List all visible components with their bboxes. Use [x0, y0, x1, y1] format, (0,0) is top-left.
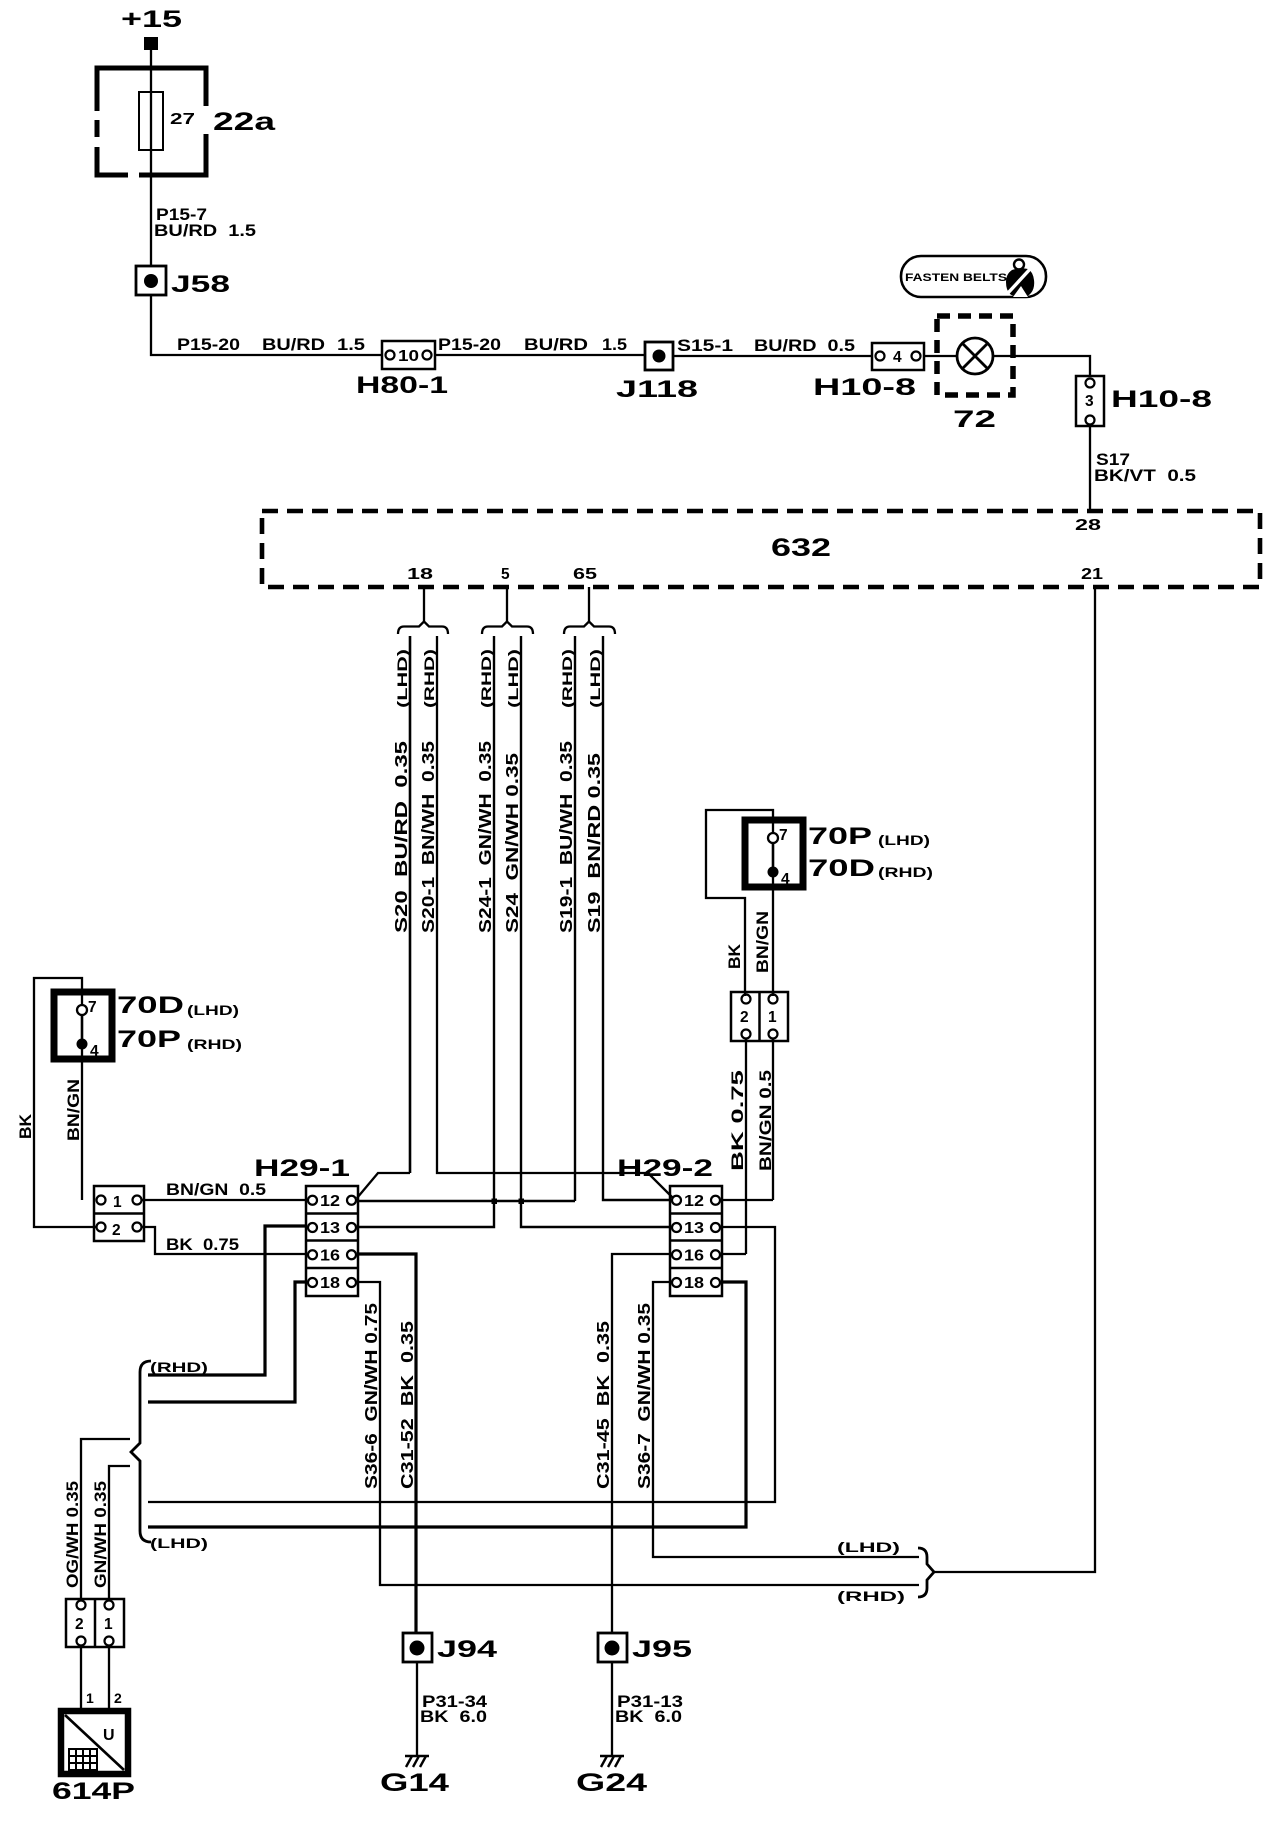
wire S20-1 BN/WH 0.35 (RHD)	[418, 636, 673, 1198]
svg-text:S19-1 BU/WH 0.35: S19-1 BU/WH 0.35	[556, 741, 576, 933]
svg-text:28: 28	[1075, 517, 1102, 534]
svg-text:2: 2	[740, 1009, 749, 1026]
switch 70P/70D right	[745, 820, 803, 888]
wire to 614P pin 2	[108, 1645, 110, 1710]
svg-text:18: 18	[407, 566, 434, 583]
svg-text:16: 16	[684, 1247, 704, 1264]
wire S36-6 GN/WH 0.75 to brace RHD	[358, 1282, 919, 1585]
svg-text:BK 6.0: BK 6.0	[615, 1708, 682, 1726]
svg-text:22a: 22a	[213, 108, 277, 136]
svg-text:+15: +15	[121, 6, 182, 33]
svg-text:1.5: 1.5	[337, 336, 365, 354]
svg-text:1: 1	[113, 1194, 122, 1211]
svg-text:70P: 70P	[808, 823, 872, 850]
svg-text:H80-1: H80-1	[356, 372, 448, 399]
svg-text:(LHD): (LHD)	[878, 832, 930, 848]
svg-text:BU/RD: BU/RD	[524, 336, 588, 354]
connector H29-1	[254, 1155, 358, 1296]
svg-text:70P: 70P	[117, 1026, 181, 1053]
wire H29-2 pin12 to BN/GN	[722, 1199, 773, 1201]
svg-text:S36-7 GN/WH 0.35: S36-7 GN/WH 0.35	[634, 1303, 654, 1489]
instrument 614P	[52, 1711, 135, 1805]
svg-text:J58: J58	[171, 271, 230, 298]
wire H29-2 pin13 to brace LHD	[148, 1227, 775, 1502]
svg-text:70D: 70D	[808, 855, 875, 882]
switch 70D/70P left	[54, 992, 112, 1060]
svg-text:S20-1 BN/WH 0.35: S20-1 BN/WH 0.35	[418, 741, 438, 933]
svg-text:J94: J94	[437, 1636, 498, 1663]
junction dot S24	[519, 1199, 525, 1205]
brace pin 18 pair	[398, 622, 448, 635]
wire H29-1 pin18 to brace RHD	[148, 1282, 307, 1402]
svg-text:BN/GN 0.5: BN/GN 0.5	[757, 1070, 775, 1171]
svg-text:614P: 614P	[52, 1778, 135, 1805]
wire 632 pin 5 stub	[506, 587, 508, 621]
wire S17 BK/VT 0.5 to 632 pin 28	[1090, 426, 1196, 511]
svg-text:(LHD): (LHD)	[587, 649, 603, 708]
svg-text:BK 0.75: BK 0.75	[166, 1236, 239, 1254]
svg-text:632: 632	[771, 534, 831, 562]
svg-text:5: 5	[501, 566, 510, 583]
junction J58	[136, 266, 230, 298]
svg-text:BK 6.0: BK 6.0	[420, 1708, 487, 1726]
wire BK 0.75 to H29-1 pin 16	[141, 1227, 307, 1254]
fuse box 22a	[94, 68, 209, 178]
node +15 terminal square	[144, 37, 158, 50]
wire S15-1 BU/RD 0.5 J118 to H10-8	[673, 337, 872, 356]
connector 1/2 left	[94, 1186, 144, 1241]
wire lamp to H10-8 pin 3	[993, 356, 1090, 376]
svg-text:12: 12	[320, 1193, 340, 1210]
svg-text:C31-45 BK 0.35: C31-45 BK 0.35	[593, 1321, 613, 1489]
svg-text:13: 13	[684, 1220, 704, 1237]
svg-text:U: U	[103, 1727, 115, 1744]
wire P31-13 BK 6.0 J95 to G24	[612, 1662, 683, 1756]
wire +15 into fuse 22a	[150, 50, 152, 92]
wire S19-1 BU/WH 0.35 (RHD)	[556, 636, 576, 1201]
wire H29-1 pin12 to S19-1	[357, 1200, 575, 1202]
svg-text:(LHD): (LHD)	[187, 1002, 239, 1018]
svg-text:BN/GN: BN/GN	[754, 911, 772, 973]
junction J94	[403, 1633, 498, 1663]
wire S19 BN/RD 0.35 (LHD)	[584, 636, 670, 1200]
wire C31-45 BK 0.35 to J95	[593, 1254, 670, 1633]
lamp 72 dashed box	[937, 316, 1013, 395]
svg-text:H29-2: H29-2	[617, 1155, 713, 1182]
svg-text:21: 21	[1081, 566, 1103, 583]
brace right LHD/RHD	[918, 1548, 934, 1597]
fasten belts telltale	[901, 256, 1046, 297]
svg-text:OG/WH 0.35: OG/WH 0.35	[64, 1481, 82, 1588]
junction J118	[616, 342, 698, 403]
svg-text:2: 2	[75, 1616, 84, 1633]
wire 632 pin 21 down to brace	[933, 587, 1095, 1572]
wire S36-7 GN/WH 0.35 to brace LHD	[634, 1282, 919, 1557]
svg-text:(LHD): (LHD)	[150, 1535, 208, 1551]
svg-text:S20 BU/RD 0.35: S20 BU/RD 0.35	[391, 741, 411, 933]
wire BN/GN 0.5 to H29-2 pin 12	[757, 1039, 775, 1200]
svg-text:(RHD): (RHD)	[559, 649, 575, 708]
svg-text:(RHD): (RHD)	[878, 864, 933, 880]
svg-text:BU/RD 1.5: BU/RD 1.5	[154, 222, 256, 240]
svg-text:(RHD): (RHD)	[478, 649, 494, 708]
svg-text:G24: G24	[576, 1769, 647, 1797]
svg-text:(RHD): (RHD)	[837, 1588, 905, 1604]
svg-text:BK/VT 0.5: BK/VT 0.5	[1094, 467, 1196, 485]
wire BN/GN 0.5 to H29-1 pin 12	[141, 1181, 307, 1200]
wire S24-1 GN/WH 0.35 (RHD)	[358, 636, 495, 1227]
connector 2/1 bottom left	[66, 1599, 124, 1647]
svg-text:S24-1 GN/WH 0.35: S24-1 GN/WH 0.35	[475, 741, 495, 933]
svg-text:1.5: 1.5	[602, 336, 627, 354]
svg-text:72: 72	[953, 406, 996, 433]
connector 2/1 right	[731, 992, 788, 1041]
svg-text:(LHD): (LHD)	[505, 649, 521, 708]
wire H29-1 pin13 to brace RHD	[148, 1226, 306, 1375]
svg-text:H29-1: H29-1	[254, 1155, 350, 1182]
svg-text:C31-52 BK 0.35: C31-52 BK 0.35	[397, 1321, 417, 1489]
svg-text:3: 3	[1085, 393, 1094, 410]
svg-text:H10-8: H10-8	[813, 374, 916, 401]
svg-text:S19 BN/RD 0.35: S19 BN/RD 0.35	[584, 753, 604, 933]
wire H29-2 pin16 to BK	[722, 1253, 746, 1255]
svg-text:65: 65	[573, 566, 598, 583]
svg-text:(LHD): (LHD)	[394, 649, 410, 708]
wire H10-8 to lamp 72	[924, 355, 957, 357]
svg-text:13: 13	[320, 1220, 340, 1237]
wire H29-2 pin18 right to brace LHD	[148, 1282, 746, 1527]
wire S24 GN/WH 0.35 (LHD)	[502, 636, 670, 1227]
svg-text:4: 4	[90, 1043, 99, 1060]
svg-text:BN/GN: BN/GN	[65, 1079, 83, 1141]
svg-text:G14: G14	[380, 1769, 449, 1797]
svg-text:BU/RD 0.5: BU/RD 0.5	[754, 337, 855, 355]
svg-text:BU/RD: BU/RD	[262, 336, 325, 354]
control module 632	[262, 511, 1260, 587]
junction J95	[598, 1633, 692, 1663]
svg-text:70D: 70D	[117, 992, 184, 1019]
svg-text:18: 18	[684, 1275, 704, 1292]
connector H10-8 pin 4	[813, 343, 924, 401]
wire BN/GN 70D pin 4 down	[81, 1049, 83, 1200]
svg-text:1: 1	[768, 1009, 777, 1026]
wire S20 BU/RD 0.35 (LHD)	[391, 636, 411, 1173]
svg-text:4: 4	[781, 871, 790, 888]
fuse element pin 27	[139, 92, 195, 150]
svg-text:FASTEN BELTS: FASTEN BELTS	[905, 272, 1007, 284]
svg-text:BN/GN 0.5: BN/GN 0.5	[166, 1181, 266, 1199]
svg-text:P15-20: P15-20	[438, 336, 501, 354]
svg-text:7: 7	[779, 827, 788, 844]
wire 632 pin 65 stub	[588, 587, 590, 621]
svg-text:4: 4	[893, 349, 902, 366]
svg-text:H10-8: H10-8	[1111, 386, 1212, 413]
wire H29-1 pin12 diagonal to S20	[357, 1173, 410, 1198]
wire BK loop 70P right	[706, 810, 773, 996]
wire BK loop 70D left	[34, 978, 96, 1227]
svg-text:10: 10	[398, 348, 419, 365]
svg-text:(LHD): (LHD)	[837, 1539, 900, 1555]
connector H80-1 pin 10	[356, 341, 448, 399]
svg-text:27: 27	[170, 111, 195, 128]
svg-text:S15-1: S15-1	[677, 337, 733, 355]
svg-text:18: 18	[320, 1275, 340, 1292]
svg-text:P15-20: P15-20	[177, 336, 240, 354]
svg-text:GN/WH 0.35: GN/WH 0.35	[92, 1481, 110, 1588]
svg-text:(RHD): (RHD)	[421, 649, 437, 708]
junction dot S24-1	[492, 1199, 498, 1205]
ground G14	[380, 1756, 449, 1797]
connector H10-8 pin 3	[1076, 376, 1212, 426]
svg-text:BK 0.75: BK 0.75	[729, 1070, 747, 1171]
svg-text:16: 16	[320, 1247, 340, 1264]
ground G24	[576, 1756, 647, 1797]
svg-text:1: 1	[104, 1616, 113, 1633]
wire P15-20 BU/RD 1.5 J58 to H80-1	[151, 295, 381, 355]
wire P15-7 BU/RD 1.5 fuse to J58	[151, 150, 256, 266]
wire P31-34 BK 6.0 J94 to G14	[417, 1662, 488, 1756]
svg-text:S36-6 GN/WH 0.75: S36-6 GN/WH 0.75	[361, 1303, 381, 1489]
svg-text:(RHD): (RHD)	[187, 1036, 242, 1052]
wire OG/WH 0.35	[64, 1439, 130, 1601]
wire C31-52 BK 0.35 to J94	[358, 1254, 417, 1633]
svg-text:S24 GN/WH 0.35: S24 GN/WH 0.35	[502, 753, 522, 933]
wire P15-20 BU/RD 1.5 H80-1 to J118	[435, 336, 645, 355]
svg-text:1: 1	[86, 1690, 94, 1706]
brace left RHD/LHD	[131, 1361, 151, 1542]
svg-text:7: 7	[88, 999, 97, 1016]
wire GN/WH 0.35	[92, 1466, 130, 1601]
wire BK 0.75 to H29-2 pin 16	[729, 1039, 747, 1254]
wire 632 pin 18 stub	[423, 587, 425, 621]
svg-text:J95: J95	[632, 1636, 692, 1663]
svg-text:2: 2	[112, 1222, 121, 1239]
wire to 614P pin 1	[80, 1645, 82, 1710]
svg-text:(RHD): (RHD)	[150, 1359, 208, 1375]
brace pin 65 pair	[564, 622, 615, 635]
svg-text:12: 12	[684, 1193, 704, 1210]
wire BN/GN 70P pin 4 down	[772, 877, 774, 996]
svg-text:BK: BK	[726, 944, 744, 969]
connector H29-2	[617, 1155, 722, 1296]
svg-text:2: 2	[114, 1690, 122, 1706]
svg-text:BK: BK	[17, 1114, 35, 1139]
svg-text:J118: J118	[616, 376, 698, 403]
brace pin 5 pair	[482, 622, 533, 635]
lamp 72 bulb	[953, 338, 996, 433]
